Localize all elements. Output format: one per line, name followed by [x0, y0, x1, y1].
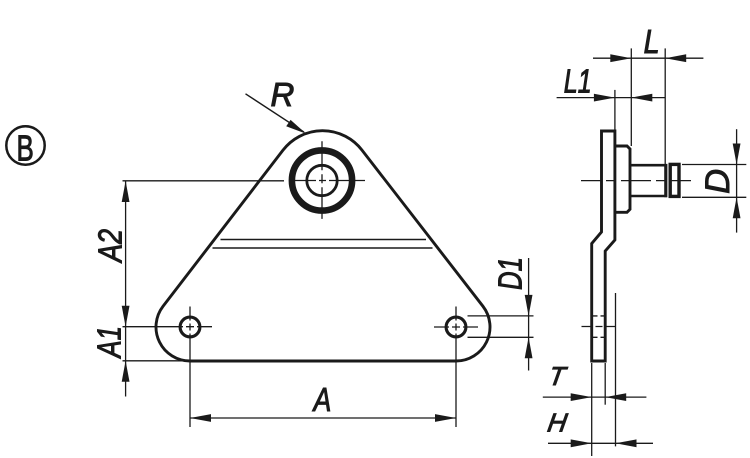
extension lines D1 (hole right edges) — [468, 315, 534, 317]
arrow L1 left — [594, 94, 615, 102]
leader R arrow — [246, 94, 305, 132]
hidden hole edges in side view — [593, 315, 605, 317]
arrow A1 bottom (up from below) — [122, 361, 130, 382]
arrow T left — [571, 393, 592, 401]
H dimension line — [548, 442, 653, 444]
arrow D1 bottom (up) — [525, 337, 533, 358]
L extension line left — [630, 48, 632, 146]
L dimension line — [593, 57, 703, 59]
svg-text:D: D — [699, 169, 737, 194]
svg-text:R: R — [271, 76, 295, 113]
svg-text:A: A — [312, 382, 332, 418]
arrow A2 bottom / A1 top (down) — [122, 306, 130, 327]
shaft end line — [664, 164, 667, 197]
D dimension line — [736, 129, 738, 232]
dimension line A — [190, 417, 456, 419]
L1 dimension line — [557, 97, 666, 99]
svg-text:A2: A2 — [93, 229, 129, 264]
hole right — [446, 317, 466, 337]
boss outer ring — [292, 150, 352, 210]
arrow A right — [435, 414, 456, 422]
arrow D1 top (down) — [525, 295, 533, 316]
T dimension line — [543, 396, 647, 398]
arrow H right — [616, 439, 637, 447]
side view plate (cranked strip) — [592, 131, 615, 361]
arrow D bottom (up) — [733, 197, 741, 218]
hole right centerline vertical / extension to A dim — [455, 307, 457, 428]
stud end cap — [670, 164, 679, 196]
arrow L left — [610, 54, 631, 62]
extension line boss center left — [123, 180, 285, 182]
arrow L right — [665, 54, 686, 62]
extension line bottom edge left — [123, 360, 191, 362]
hole left centerline horizontal with extension to A1 dim — [123, 326, 213, 328]
side view stud centerline — [581, 180, 691, 182]
svg-text:D1: D1 — [493, 257, 530, 290]
arrow H left — [571, 439, 592, 447]
svg-text:A1: A1 — [92, 326, 129, 359]
boss centerline horizontal — [291, 180, 365, 182]
extension line side bottom right of strip — [604, 363, 606, 405]
svg-text:L1: L1 — [564, 63, 592, 100]
L1 extension line — [614, 90, 616, 131]
extension line H right — [615, 293, 617, 446]
D extension lines — [682, 164, 746, 166]
plate outline (front view) — [156, 131, 490, 361]
extension line side bottom left — [591, 363, 593, 456]
stud shaft — [630, 165, 666, 196]
svg-text:T: T — [547, 361, 570, 391]
boss side rect — [615, 146, 630, 212]
hole left — [180, 317, 200, 337]
arrow D top (down) — [733, 144, 741, 165]
L extension line right — [664, 48, 666, 165]
arrow L1 right — [631, 94, 652, 102]
hole right centerline horizontal — [434, 326, 478, 328]
arrow T right — [605, 393, 626, 401]
bend line upper — [221, 239, 427, 241]
hole left centerline vertical / extension to A dim — [189, 307, 191, 428]
bend line lower — [213, 247, 433, 249]
svg-text:H: H — [546, 408, 570, 438]
arrow A2 top (up) — [122, 181, 130, 202]
svg-text:B: B — [17, 128, 34, 168]
boss centerline vertical — [321, 141, 323, 219]
boss inner circle — [307, 165, 337, 195]
view label B circle — [6, 126, 44, 164]
dimension line D1 vertical — [528, 258, 530, 371]
arrow A left — [190, 414, 211, 422]
hole centerline side view — [582, 326, 616, 328]
dimension line A2/A1 vertical — [125, 181, 127, 397]
svg-text:L: L — [644, 23, 660, 60]
